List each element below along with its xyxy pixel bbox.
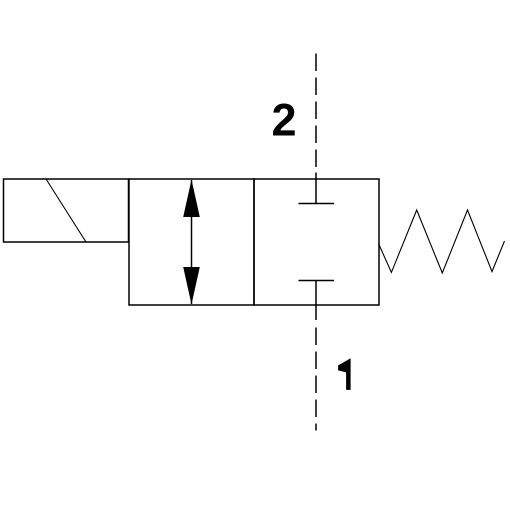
blocked port 2 symbol (299, 173, 335, 204)
flow arrow (double-headed) (183, 180, 200, 305)
port 2 pilot line (dashed) (315, 54, 317, 173)
return spring (379, 210, 505, 273)
svg-text:2: 2 (272, 95, 297, 146)
blocked port 1 symbol (299, 281, 335, 321)
valve position box left (transit position with arrow) (129, 179, 254, 305)
valve position box right (blocked ports) (254, 179, 379, 305)
port 1 label (338, 358, 351, 390)
solenoid coil (4, 179, 129, 242)
port 1 pilot line (dashed) (315, 328, 317, 431)
